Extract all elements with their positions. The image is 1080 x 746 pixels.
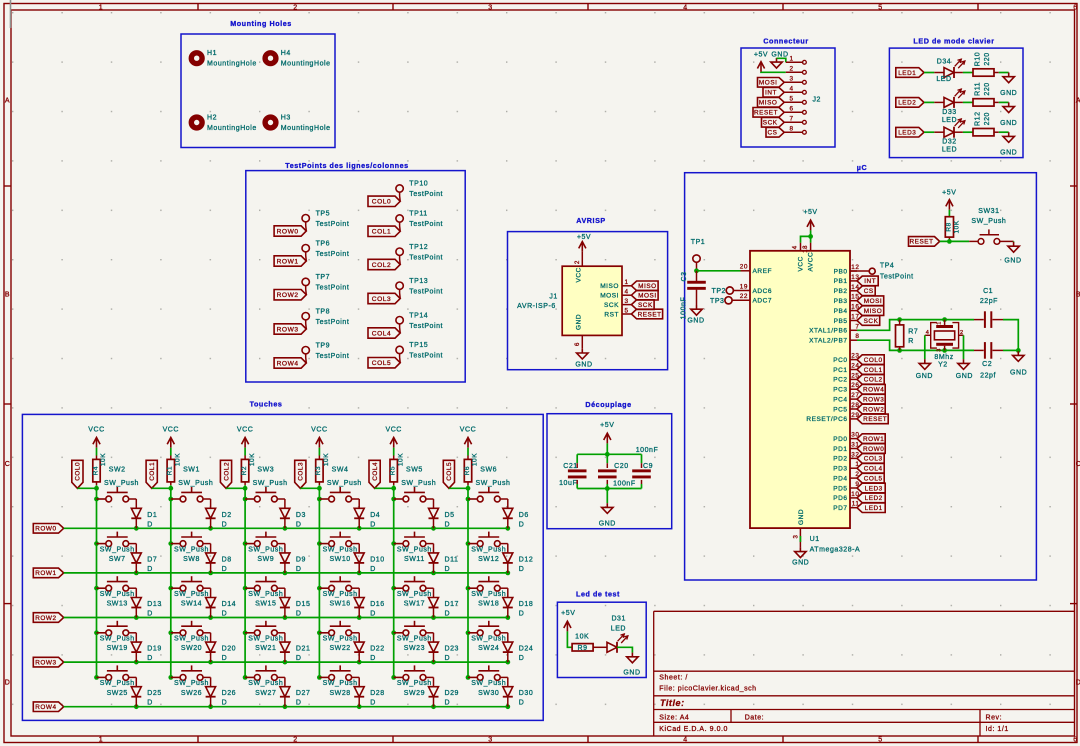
svg-text:D: D <box>222 521 228 528</box>
svg-text:PD1: PD1 <box>833 446 847 453</box>
svg-text:LED de mode clavier: LED de mode clavier <box>913 37 994 46</box>
svg-text:SW_Push: SW_Push <box>323 546 358 553</box>
svg-text:5: 5 <box>878 737 882 744</box>
svg-text:PC5: PC5 <box>833 406 847 413</box>
svg-text:MOSI: MOSI <box>759 80 778 87</box>
led D31 <box>607 615 628 653</box>
ground GND (C3) <box>687 305 704 325</box>
svg-text:TestPoint: TestPoint <box>316 353 350 360</box>
pin 11 PD7 <box>833 501 859 512</box>
svg-text:TestPoint: TestPoint <box>409 221 443 228</box>
test point TP6 ROW1 <box>274 240 349 266</box>
global label COL4 (touches) <box>369 460 380 488</box>
svg-text:ADC7: ADC7 <box>753 298 773 305</box>
svg-text:100nF: 100nF <box>681 297 688 320</box>
switch SW31 SW_Push <box>969 208 1013 244</box>
test point TP2 <box>712 287 734 295</box>
wire column COL0 <box>77 485 99 680</box>
svg-text:SW11: SW11 <box>404 556 425 563</box>
switch SW24 SW_Push <box>468 621 506 652</box>
svg-text:3: 3 <box>488 4 492 11</box>
svg-text:PB1: PB1 <box>834 278 848 285</box>
svg-text:TP1: TP1 <box>691 239 706 246</box>
section box Led de test <box>557 590 646 678</box>
svg-text:SCK: SCK <box>763 120 778 127</box>
svg-text:220: 220 <box>984 52 991 65</box>
svg-text:GND: GND <box>1000 150 1017 157</box>
svg-text:TestPoint: TestPoint <box>316 221 350 228</box>
diode D3 <box>277 499 306 528</box>
diode D11 <box>426 544 459 573</box>
pin 13 PB1 <box>834 274 860 285</box>
svg-text:ROW0: ROW0 <box>277 228 299 235</box>
svg-text:ROW2: ROW2 <box>863 406 884 413</box>
svg-text:SW27: SW27 <box>255 690 276 697</box>
svg-text:D29: D29 <box>445 690 460 697</box>
diode D28 <box>352 677 385 706</box>
diode D19 <box>129 633 162 662</box>
pin 2 PD4 <box>833 471 859 482</box>
svg-text:D30: D30 <box>519 690 534 697</box>
resistor R4 10K <box>92 453 107 485</box>
svg-text:PD6: PD6 <box>833 495 847 502</box>
svg-text:D23: D23 <box>445 646 460 653</box>
svg-text:SW8: SW8 <box>183 556 200 563</box>
pin 3 GND (U1) <box>794 509 806 548</box>
svg-text:+5V: +5V <box>577 234 591 241</box>
svg-text:D22: D22 <box>370 646 385 653</box>
pin 27 PC4 <box>833 392 859 403</box>
switch SW2 SW_Push <box>97 466 139 502</box>
svg-text:SW_Push: SW_Push <box>248 636 283 643</box>
svg-text:SW_Push: SW_Push <box>476 480 511 487</box>
svg-text:Id: 1/1: Id: 1/1 <box>986 726 1009 733</box>
svg-text:R10: R10 <box>974 52 981 67</box>
svg-text:TP9: TP9 <box>316 342 331 349</box>
power VCC (column COL0) <box>88 427 104 448</box>
frame row letters <box>5 98 1080 687</box>
diode D23 <box>426 633 459 662</box>
svg-text:100nF: 100nF <box>636 447 659 454</box>
svg-text:A: A <box>5 98 10 105</box>
svg-text:PC4: PC4 <box>833 396 847 403</box>
switch SW8 SW_Push <box>171 532 209 563</box>
global label SCK (AVRISP) <box>631 300 654 310</box>
global label COL5 (touches) <box>443 460 454 488</box>
svg-text:SW20: SW20 <box>181 645 202 652</box>
diode D5 <box>426 499 455 528</box>
section box AVRISP <box>508 216 668 370</box>
wire D33 to R11 <box>954 101 973 103</box>
svg-text:+5V: +5V <box>600 422 614 429</box>
wire column COL1 <box>152 485 174 680</box>
svg-text:PC3: PC3 <box>833 387 847 394</box>
svg-text:D12: D12 <box>519 556 534 563</box>
svg-text:GND: GND <box>1004 257 1021 264</box>
svg-text:R7: R7 <box>908 328 918 335</box>
svg-text:10K: 10K <box>100 453 107 466</box>
wire VCC/AVCC to +5V <box>801 230 813 242</box>
wire LED1 to D34 <box>924 72 944 74</box>
svg-text:SW_Push: SW_Push <box>471 636 506 643</box>
svg-text:ADC6: ADC6 <box>753 288 773 295</box>
svg-text:D: D <box>147 521 153 528</box>
diode D13 <box>129 588 162 617</box>
svg-text:D: D <box>445 700 451 707</box>
svg-text:4: 4 <box>683 4 687 11</box>
svg-text:Title:: Title: <box>660 698 685 708</box>
svg-text:D7: D7 <box>147 556 157 563</box>
global label RESET (U1 RESET/PC6) <box>857 414 888 424</box>
wire RESET node <box>940 239 970 244</box>
switch SW13 SW_Push <box>97 576 135 607</box>
switch SW20 SW_Push <box>171 621 209 652</box>
power +5V (connector) <box>754 51 768 72</box>
ground GND (decouplage) <box>599 503 616 528</box>
global label LED1 <box>896 68 924 78</box>
ground GND (led de test) <box>623 653 640 677</box>
origin marker <box>10 0 12 28</box>
svg-text:D20: D20 <box>222 646 237 653</box>
svg-text:R2: R2 <box>241 466 248 475</box>
svg-text:GND: GND <box>1000 120 1017 127</box>
diode D15 <box>277 588 310 617</box>
svg-text:ROW4: ROW4 <box>35 704 56 711</box>
global label SCK (U1 PB5) <box>857 316 880 326</box>
switch SW11 SW_Push <box>394 532 432 563</box>
svg-text:4: 4 <box>624 289 628 296</box>
section box µC <box>685 163 1037 580</box>
global label LED2 <box>896 98 924 108</box>
svg-text:GND: GND <box>798 509 805 525</box>
svg-text:Découplage: Découplage <box>585 400 631 409</box>
svg-text:SW10: SW10 <box>329 556 350 563</box>
test point TP8 ROW3 <box>274 308 349 334</box>
wire C1/C2 to GND <box>1003 320 1021 353</box>
svg-text:AVR-ISP-6: AVR-ISP-6 <box>517 303 556 310</box>
wire VCC to R3 <box>318 448 320 460</box>
svg-text:D: D <box>222 566 228 573</box>
svg-text:D: D <box>222 655 228 662</box>
global label ROW3 (touches) <box>33 657 63 667</box>
switch SW17 SW_Push <box>394 576 432 607</box>
global label LED3 <box>896 127 924 137</box>
svg-text:SW30: SW30 <box>478 690 499 697</box>
resistor R5 10K <box>390 453 405 485</box>
svg-text:C3: C3 <box>681 271 688 281</box>
diode D10 <box>352 544 385 573</box>
ground GND (Y2 pin2) <box>956 359 973 380</box>
ground GND (LED3 return) <box>1000 132 1017 156</box>
svg-text:J1: J1 <box>549 294 558 301</box>
diode D20 <box>203 633 236 662</box>
svg-text:SCK: SCK <box>604 302 619 309</box>
svg-text:D: D <box>296 521 302 528</box>
svg-text:SW1: SW1 <box>183 466 200 473</box>
svg-text:+5V: +5V <box>561 610 575 617</box>
svg-text:+5V: +5V <box>942 190 956 197</box>
svg-text:LED3: LED3 <box>898 130 916 137</box>
wire LED3 to D32 <box>924 131 944 133</box>
svg-text:Led de test: Led de test <box>576 590 620 599</box>
svg-text:TP15: TP15 <box>409 342 428 349</box>
capacitor C2 22pf <box>974 342 1003 379</box>
svg-text:7: 7 <box>789 116 793 123</box>
wire LED2 to D33 <box>924 101 944 103</box>
global label COL3 (U1 PD2) <box>857 454 884 464</box>
svg-text:6: 6 <box>1073 737 1077 744</box>
global label ROW0 (U1 PD1) <box>857 444 885 454</box>
svg-text:SW_Push: SW_Push <box>248 680 283 687</box>
diode D8 <box>203 544 232 573</box>
svg-text:D: D <box>222 611 228 618</box>
pin 26 PC3 <box>833 382 859 393</box>
svg-text:AVRISP: AVRISP <box>576 216 606 225</box>
svg-text:SCK: SCK <box>864 318 879 325</box>
wire TP1 to AREF <box>694 262 740 273</box>
switch SW9 SW_Push <box>245 532 283 563</box>
svg-text:SW_Push: SW_Push <box>397 546 432 553</box>
switch SW3 SW_Push <box>245 466 287 502</box>
svg-text:SW_Push: SW_Push <box>100 546 135 553</box>
svg-text:GND: GND <box>771 51 788 58</box>
svg-text:TestPoint: TestPoint <box>880 273 914 280</box>
svg-text:TP4: TP4 <box>880 263 895 270</box>
svg-text:SW_Push: SW_Push <box>174 591 209 598</box>
svg-text:SW21: SW21 <box>255 645 276 652</box>
resistor R6 10K <box>464 453 479 485</box>
svg-text:1: 1 <box>937 321 943 325</box>
svg-text:PD3: PD3 <box>833 466 847 473</box>
svg-text:1: 1 <box>789 56 793 63</box>
diode D25 <box>129 677 162 706</box>
svg-text:10K: 10K <box>175 453 182 466</box>
svg-text:H2: H2 <box>207 114 217 121</box>
power +5V (decouplage) <box>600 422 614 443</box>
svg-text:+5V: +5V <box>754 51 768 58</box>
svg-text:18: 18 <box>803 245 809 253</box>
resistor R3 10K <box>315 453 330 485</box>
global label ROW0 (touches) <box>33 524 63 534</box>
wire +5V rail <box>577 443 641 468</box>
global label INT (U1 PB1) <box>857 276 878 286</box>
wire VCC to R5 <box>393 448 395 460</box>
svg-text:TestPoint: TestPoint <box>316 251 350 258</box>
diode D12 <box>500 544 533 573</box>
svg-text:D: D <box>370 566 376 573</box>
svg-text:PD5: PD5 <box>833 485 847 492</box>
svg-text:B: B <box>5 292 10 299</box>
svg-text:ROW4: ROW4 <box>277 360 299 367</box>
svg-text:220: 220 <box>984 112 991 125</box>
mounting hole H1 <box>191 50 256 68</box>
wire R11 to GND <box>994 101 1009 103</box>
resistor R12 220 <box>973 111 994 135</box>
svg-text:PB5: PB5 <box>834 318 848 325</box>
wire D34 to R10 <box>954 72 973 74</box>
svg-text:8Mhz: 8Mhz <box>934 354 953 361</box>
svg-text:D: D <box>519 611 525 618</box>
diode D14 <box>203 588 236 617</box>
pin 22 ADC7 <box>732 293 772 305</box>
global label CS (connector pin 8) <box>766 128 784 138</box>
svg-text:SW_Push: SW_Push <box>323 591 358 598</box>
svg-text:SW_Push: SW_Push <box>253 480 288 487</box>
svg-text:D: D <box>5 680 11 687</box>
global label COL2 (U1 PC2) <box>857 375 884 385</box>
svg-text:D11: D11 <box>445 556 459 563</box>
section box TestPoints des lignes/colonnes <box>246 161 465 382</box>
crystal Y2 8Mhz <box>925 320 964 369</box>
wire SW31 to GND <box>1013 240 1015 243</box>
svg-text:MountingHole: MountingHole <box>207 125 257 132</box>
wire VCC to R2 <box>244 448 246 460</box>
pin 24 PC1 <box>833 363 859 374</box>
svg-text:LED2: LED2 <box>898 100 916 107</box>
svg-text:Date:: Date: <box>745 715 764 722</box>
svg-text:SW14: SW14 <box>181 601 202 608</box>
wire column COL4 <box>375 485 397 680</box>
diode D26 <box>203 677 236 706</box>
svg-text:ROW3: ROW3 <box>35 659 56 666</box>
mounting hole H2 <box>191 114 256 132</box>
svg-text:GND: GND <box>623 669 640 676</box>
test point TP3 <box>710 297 732 305</box>
diode D30 <box>500 677 533 706</box>
svg-text:ATmega328-A: ATmega328-A <box>810 546 861 553</box>
power VCC (column COL5) <box>460 427 476 448</box>
svg-text:R12: R12 <box>974 111 981 126</box>
resistor R7 <box>896 320 919 351</box>
svg-text:SW7: SW7 <box>109 556 126 563</box>
pin 28 PC5 <box>833 402 859 413</box>
svg-text:D17: D17 <box>445 601 460 608</box>
ground GND (U1) <box>792 547 809 566</box>
svg-text:SW22: SW22 <box>329 645 350 652</box>
svg-text:CS: CS <box>768 130 778 137</box>
svg-text:SW_Push: SW_Push <box>248 591 283 598</box>
svg-text:GND: GND <box>1000 90 1017 97</box>
svg-text:TP14: TP14 <box>409 312 428 319</box>
svg-text:AVCC: AVCC <box>808 252 815 272</box>
svg-text:D5: D5 <box>445 512 455 519</box>
pin 15 PB3 <box>834 294 860 305</box>
test point TP14 COL4 <box>368 312 443 338</box>
svg-text:PD2: PD2 <box>833 456 847 463</box>
svg-text:INT: INT <box>864 278 876 285</box>
svg-text:VCC: VCC <box>576 267 583 282</box>
svg-text:SW13: SW13 <box>107 601 128 608</box>
svg-text:SW_Push: SW_Push <box>100 591 135 598</box>
pin 16 PB4 <box>834 304 860 315</box>
svg-text:10K: 10K <box>472 453 479 466</box>
svg-text:ROW0: ROW0 <box>35 526 56 533</box>
svg-text:Y2: Y2 <box>938 362 948 369</box>
power +5V (led de test) <box>561 610 575 631</box>
svg-text:PD4: PD4 <box>833 475 847 482</box>
svg-text:8: 8 <box>789 126 793 133</box>
svg-text:D18: D18 <box>519 601 534 608</box>
wire XTAL1 to R7/Y2/C1 rail <box>857 317 974 330</box>
pin 29 RESET/PC6 <box>806 412 859 423</box>
switch SW10 SW_Push <box>319 532 357 563</box>
global label COL2 (touches) <box>220 460 231 488</box>
svg-text:D: D <box>1076 680 1080 687</box>
global label ROW2 (U1 PC5) <box>857 404 885 414</box>
svg-text:PB3: PB3 <box>834 298 848 305</box>
svg-text:10K: 10K <box>323 453 330 466</box>
svg-text:10K: 10K <box>575 634 589 641</box>
power VCC (column COL3) <box>311 427 327 448</box>
svg-text:R8: R8 <box>945 222 952 231</box>
svg-text:COL3: COL3 <box>864 456 883 463</box>
section box LED de mode clavier <box>889 37 1023 158</box>
ground GND (C1 C2) <box>1010 351 1027 377</box>
test point TP7 ROW2 <box>274 274 349 300</box>
pin 31 PD1 <box>833 442 859 453</box>
wire ROW1 <box>64 571 510 576</box>
svg-text:SW_Push: SW_Push <box>471 591 506 598</box>
svg-text:RESET/PC6: RESET/PC6 <box>806 416 847 423</box>
svg-text:D4: D4 <box>370 512 380 519</box>
test point TP12 COL2 <box>368 244 443 270</box>
svg-text:19: 19 <box>740 283 748 290</box>
svg-text:D19: D19 <box>147 646 162 653</box>
svg-text:INT: INT <box>765 90 777 97</box>
svg-text:ROW2: ROW2 <box>35 615 56 622</box>
diode D7 <box>129 544 158 573</box>
wire D32 to R12 <box>954 131 973 133</box>
svg-text:SW_Push: SW_Push <box>248 546 283 553</box>
svg-text:GND: GND <box>687 318 704 325</box>
svg-text:D14: D14 <box>222 601 237 608</box>
svg-text:SW_Push: SW_Push <box>327 480 362 487</box>
svg-text:D: D <box>222 700 228 707</box>
svg-text:SW_Push: SW_Push <box>100 680 135 687</box>
svg-text:D1: D1 <box>147 512 157 519</box>
svg-text:VCC: VCC <box>163 427 179 434</box>
svg-text:D: D <box>296 611 302 618</box>
switch SW26 SW_Push <box>171 665 209 696</box>
power +5V (R8) <box>942 190 956 210</box>
svg-text:6: 6 <box>575 342 581 346</box>
pin 23 PC0 <box>833 353 859 364</box>
diode D17 <box>426 588 459 617</box>
wire VCC to R1 <box>170 448 172 460</box>
svg-text:LED: LED <box>942 147 957 154</box>
svg-text:TestPoint: TestPoint <box>409 288 443 295</box>
switch SW16 SW_Push <box>319 576 357 607</box>
svg-text:SW_Push: SW_Push <box>174 680 209 687</box>
pin 20 AREF <box>740 264 772 276</box>
resistor R1 10K <box>167 453 182 485</box>
wire VCC to R6 <box>467 448 469 460</box>
svg-text:10K: 10K <box>954 220 961 233</box>
svg-text:SW5: SW5 <box>406 466 423 473</box>
svg-text:VCC: VCC <box>311 427 327 434</box>
global label COL1 (U1 PC1) <box>857 365 884 375</box>
switch SW12 SW_Push <box>468 532 506 563</box>
global label LED3 (U1 PD5) <box>857 483 885 493</box>
svg-text:VCC: VCC <box>385 427 401 434</box>
svg-text:R1: R1 <box>167 466 174 475</box>
svg-text:D27: D27 <box>296 690 311 697</box>
svg-text:KiCad E.D.A. 9.0.0: KiCad E.D.A. 9.0.0 <box>659 726 728 733</box>
svg-text:10K: 10K <box>249 453 256 466</box>
svg-text:1: 1 <box>99 4 103 11</box>
svg-text:TestPoints des lignes/colonnes: TestPoints des lignes/colonnes <box>285 161 408 170</box>
svg-text:GND: GND <box>792 560 809 567</box>
